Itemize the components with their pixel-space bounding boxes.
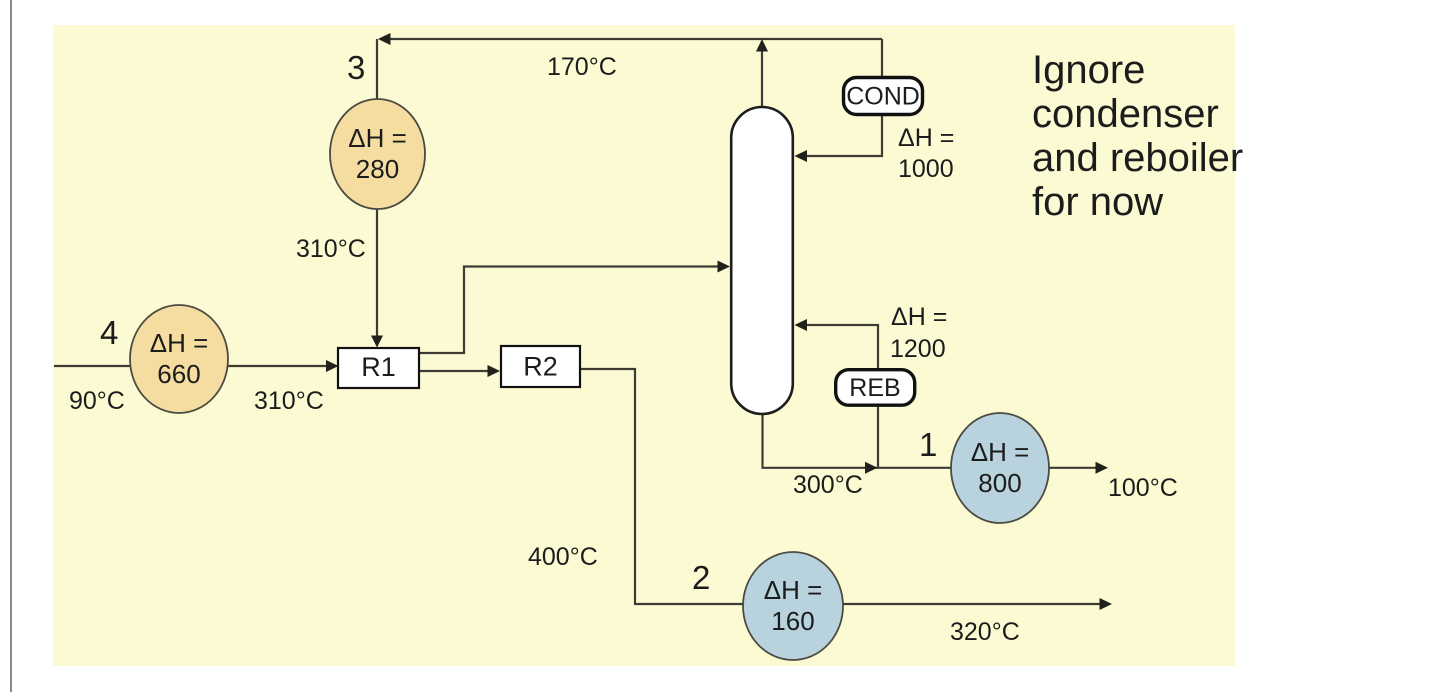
cooler circle stream 2 dH=160 <box>743 552 843 660</box>
svg-text:COND: COND <box>846 83 920 111</box>
arrowhead left into column <box>795 150 808 162</box>
svg-text:ΔH =: ΔH = <box>891 303 947 331</box>
svg-text:ΔH =: ΔH = <box>898 124 954 152</box>
wire: REB bottom vertical <box>877 405 879 468</box>
svg-text:for now: for now <box>1032 180 1163 224</box>
svg-text:ΔH =: ΔH = <box>348 123 407 153</box>
arrowhead left into corner <box>378 33 391 45</box>
cooler circle stream 1 dH=800 <box>951 413 1049 523</box>
svg-text:300°C: 300°C <box>793 471 863 499</box>
svg-text:ΔH =: ΔH = <box>971 437 1030 467</box>
wire: bottoms product line (stream 1) <box>763 413 1097 468</box>
svg-text:400°C: 400°C <box>528 543 598 571</box>
reactor R1 <box>338 348 419 388</box>
svg-text:310°C: 310°C <box>296 235 366 263</box>
wire: R1 to R2 <box>419 370 490 372</box>
wire: feed line (stream 4) <box>54 365 328 367</box>
wire: REB return to column <box>806 325 878 369</box>
svg-text:1200: 1200 <box>890 335 946 363</box>
svg-text:170°C: 170°C <box>547 53 617 81</box>
arrowhead left into column <box>795 319 808 331</box>
left border line <box>10 0 12 692</box>
arrowhead right into R1 <box>326 360 339 372</box>
wire: COND outlet to column <box>806 116 882 156</box>
svg-text:1: 1 <box>919 426 937 463</box>
heater circle stream 3 dH=280 <box>330 99 425 209</box>
arrowhead right end of stream 1 <box>1096 462 1109 474</box>
arrowhead right end of stream 2 <box>1100 598 1113 610</box>
wire: recycle top horizontal (stream 3) <box>380 38 882 40</box>
note text: Ignore condenser and reboiler for now <box>1032 48 1243 224</box>
svg-text:4: 4 <box>100 314 118 351</box>
arrowhead up into top line <box>756 39 768 52</box>
svg-text:condenser: condenser <box>1032 92 1219 136</box>
svg-text:ΔH =: ΔH = <box>764 575 823 605</box>
wire: R1 top outlet to column <box>419 267 720 354</box>
wire: stream 3 vertical down to R1 <box>376 39 378 345</box>
svg-text:160: 160 <box>771 606 814 636</box>
svg-text:100°C: 100°C <box>1108 474 1178 502</box>
arrowhead right into R2 <box>488 365 501 377</box>
slide background <box>53 25 1235 666</box>
svg-text:ΔH =: ΔH = <box>150 328 209 358</box>
svg-text:310°C: 310°C <box>254 387 324 415</box>
wire: column top vapor up <box>761 50 763 107</box>
reboiler REB <box>836 370 915 406</box>
svg-text:280: 280 <box>356 154 399 184</box>
svg-text:Ignore: Ignore <box>1032 48 1145 92</box>
condenser COND <box>844 78 923 115</box>
svg-text:3: 3 <box>347 49 365 86</box>
svg-text:320°C: 320°C <box>950 618 1020 646</box>
svg-text:REB: REB <box>849 374 900 402</box>
svg-text:800: 800 <box>978 468 1021 498</box>
reactor R2 <box>501 346 580 387</box>
distillation column <box>731 107 793 414</box>
svg-text:660: 660 <box>157 359 200 389</box>
svg-text:90°C: 90°C <box>69 387 125 415</box>
wire: R2 outlet (stream 2) <box>580 369 1100 604</box>
arrowhead down into R1 <box>371 336 383 348</box>
arrowhead right into column <box>718 261 731 273</box>
svg-text:2: 2 <box>692 559 710 596</box>
svg-text:1000: 1000 <box>898 155 954 183</box>
svg-text:and reboiler: and reboiler <box>1032 136 1243 180</box>
wire: vertical down to COND <box>881 39 883 78</box>
heater circle stream 4 dH=660 <box>130 305 228 413</box>
svg-text:R2: R2 <box>523 352 558 382</box>
arrowhead right at REB junction <box>865 462 878 474</box>
svg-text:R1: R1 <box>361 352 396 382</box>
